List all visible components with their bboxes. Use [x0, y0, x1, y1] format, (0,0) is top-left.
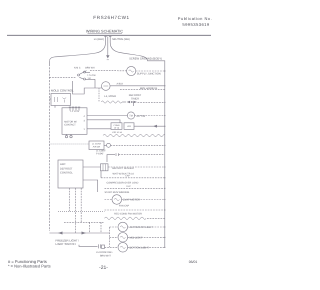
wire switch to mullion lamp	[90, 70, 127, 72]
label cap	[125, 175, 130, 178]
wire mold box to timer box	[54, 106, 56, 108]
wire dashed rung B	[64, 221, 105, 223]
mid light lamp	[118, 233, 128, 243]
svg-text:L1 (BLK): L1 (BLK)	[94, 38, 104, 41]
wire olp rung	[105, 187, 165, 189]
svg-text:L1 CONT: L1 CONT	[96, 149, 106, 152]
label compressor wht	[113, 173, 135, 176]
wire rail to mold box	[49, 98, 51, 100]
wire neutral branch to right rail	[110, 43, 165, 64]
label ground screw body	[129, 58, 162, 61]
label timer motor	[137, 115, 146, 118]
wire heater connector rung	[122, 101, 165, 106]
wire t-stat rung	[107, 153, 165, 162]
header model number	[93, 15, 129, 20]
wire bottom lamp rung	[105, 246, 165, 248]
wire hot branch to left rail	[49, 43, 105, 65]
lamp connector	[99, 244, 105, 248]
door switch lamp	[102, 82, 111, 91]
label t-stat	[96, 149, 106, 155]
svg-text:NEUTRAL(WH): NEUTRAL(WH)	[112, 38, 130, 41]
svg-text:A BLK: A BLK	[117, 83, 124, 86]
lamp vertical feed	[109, 227, 111, 247]
wire lower harness	[120, 89, 165, 91]
wire adc lower right	[83, 180, 98, 192]
connector block B	[124, 123, 134, 130]
wavy section divider	[103, 134, 165, 136]
sensor connector	[101, 164, 109, 171]
svg-text:L1, MOLD: L1, MOLD	[104, 95, 116, 98]
svg-text:MOLD CONTROL: MOLD CONTROL	[51, 89, 74, 93]
label freezer lamp	[130, 226, 154, 229]
wire bottom bus with arrows	[49, 232, 109, 235]
wire timer pin4 to motor	[87, 115, 128, 117]
svg-text:06/01: 06/01	[189, 260, 198, 264]
mold control label	[51, 89, 74, 93]
svg-text:ADC: ADC	[60, 163, 66, 166]
svg-text:WIRING SCHEMATIC: WIRING SCHEMATIC	[86, 29, 124, 33]
wire cap rung	[101, 177, 165, 179]
svg-text:HTR 10-14: HTR 10-14	[112, 131, 123, 134]
footer date code	[189, 260, 198, 264]
svg-text:CONN: CONN	[114, 124, 120, 127]
wire mid lamp rung	[110, 236, 165, 238]
wavy divider lower	[105, 217, 165, 219]
mullion heater lamp	[127, 66, 136, 75]
wire door switch to rail	[110, 85, 165, 87]
wire sensor to rail	[108, 166, 165, 168]
legend functioning parts	[8, 259, 51, 268]
svg-text:BRN WHT: BRN WHT	[100, 254, 111, 257]
wire air door to rail	[111, 144, 165, 146]
wire timer pin3	[87, 120, 120, 123]
evap fan motor	[112, 195, 122, 205]
label fan cap	[119, 205, 130, 208]
wire rail to air door box	[49, 143, 89, 145]
label bottom lamp	[130, 246, 150, 249]
svg-text:OLP: OLP	[126, 185, 131, 188]
label N M C	[74, 67, 81, 70]
svg-text:FRS26H7CW1: FRS26H7CW1	[93, 15, 129, 20]
label ORN WH	[85, 67, 95, 70]
wire rail to energy switch	[49, 76, 76, 78]
connector pins timer top	[69, 107, 80, 111]
svg-text:HTR: HTR	[127, 125, 132, 128]
header publication number	[178, 16, 212, 27]
junction ticks right rail	[164, 70, 165, 248]
svg-text:DEFROST: DEFROST	[60, 168, 73, 171]
svg-text:MID LIGHT: MID LIGHT	[130, 236, 144, 239]
wire evap rung	[105, 199, 165, 201]
label connector bottom	[112, 131, 123, 134]
title WIRING SCHEMATIC	[86, 29, 124, 33]
header rule	[7, 34, 211, 36]
label L4 BLK	[117, 83, 124, 86]
svg-text:LIGHT SWITCH: LIGHT SWITCH	[56, 242, 76, 246]
label olp	[126, 185, 131, 188]
switch energy saver	[78, 71, 96, 80]
svg-text:L1 CONT: L1 CONT	[92, 143, 102, 146]
wire sensor to cap rung	[100, 171, 102, 178]
label harness	[140, 87, 158, 90]
air door motor	[104, 143, 111, 147]
label t close	[87, 74, 96, 80]
label cond fan	[114, 213, 142, 216]
label L1 BLK	[94, 38, 104, 41]
connector block A	[111, 123, 122, 130]
svg-text:AIR DUCT SEN BLK: AIR DUCT SEN BLK	[112, 167, 134, 170]
svg-text:SUPPLY JUNCTION: SUPPLY JUNCTION	[137, 72, 161, 75]
svg-text:N M C: N M C	[74, 67, 81, 70]
label evap motor	[123, 198, 140, 201]
svg-text:START RUN WINDING: START RUN WINDING	[105, 191, 130, 194]
label mid lamp	[130, 236, 144, 239]
defrost heater element	[101, 101, 122, 103]
label freezer light	[56, 239, 80, 247]
ground symbol	[106, 55, 109, 60]
label sensor	[112, 167, 134, 170]
wire adc to sensor	[83, 166, 101, 168]
svg-text:SCREW GROUND (BODY): SCREW GROUND (BODY)	[129, 58, 162, 61]
wire switch to door lamp	[73, 79, 102, 101]
label defrost timer	[129, 94, 142, 100]
svg-text:Publication No.: Publication No.	[178, 16, 212, 21]
svg-text:T-STAT: T-STAT	[96, 153, 104, 156]
svg-text:AUTOMATIC LIGHT: AUTOMATIC LIGHT	[130, 226, 154, 229]
freezer light lamp	[118, 222, 128, 232]
adaptive defrost control box	[58, 160, 83, 188]
wire motor to rail	[135, 115, 165, 117]
label mullion heater	[137, 72, 161, 75]
svg-text:BRN HARNESS: BRN HARNESS	[140, 87, 158, 90]
label L1 mold	[104, 95, 116, 98]
svg-text:ORN WH: ORN WH	[85, 67, 95, 70]
label NEUTRAL WHT	[112, 38, 130, 41]
wire freezer lamp rung	[110, 226, 165, 228]
mold control box	[51, 94, 71, 106]
svg-text:T CLOSE: T CLOSE	[87, 74, 96, 77]
label start winding	[105, 191, 130, 194]
power cord plug prongs	[104, 36, 111, 42]
svg-text:5995353619: 5995353619	[182, 22, 210, 27]
page number	[99, 265, 108, 271]
svg-text:10-14: 10-14	[114, 126, 120, 129]
svg-text:CONTROL: CONTROL	[60, 172, 73, 175]
right rail NEUTRAL	[164, 63, 166, 247]
svg-text:BOTTOM LIGHT: BOTTOM LIGHT	[130, 246, 150, 249]
defrost timer box	[62, 108, 87, 135]
label door sw bottom	[96, 251, 114, 257]
svg-text:* = Non-Illustrated Parts: * = Non-Illustrated Parts	[8, 263, 51, 268]
wire timer pin1	[87, 128, 111, 130]
svg-text:AIR DR: AIR DR	[93, 146, 101, 149]
svg-text:TIMER: TIMER	[131, 97, 139, 100]
defrost timer motor	[127, 112, 134, 119]
svg-text:-21-: -21-	[99, 265, 108, 271]
ground wire	[107, 43, 109, 56]
svg-text:CONTACT: CONTACT	[64, 124, 76, 127]
left rail L1	[48, 64, 50, 231]
svg-text:L5 DOOR SW L: L5 DOOR SW L	[96, 251, 114, 254]
wire dotted rung A	[58, 210, 105, 212]
svg-text:RED COND FAN MOTOR: RED COND FAN MOTOR	[114, 213, 142, 216]
wire to lamp connector	[79, 245, 98, 247]
wire connector to rail with arrow	[134, 125, 165, 128]
wire fan rung	[105, 209, 165, 211]
svg-text:COMPRESSOR OVER LOAD: COMPRESSOR OVER LOAD	[107, 182, 139, 185]
adc bottom wires	[69, 188, 101, 233]
wire mullion to rail	[136, 70, 165, 72]
svg-text:WHT W/ BLK TR L6: WHT W/ BLK TR L6	[113, 173, 135, 176]
bottom light lamp	[118, 243, 128, 253]
svg-text:TM: TM	[129, 115, 132, 118]
svg-text:CAP: CAP	[125, 175, 130, 178]
svg-text:FAN CAP: FAN CAP	[119, 205, 130, 208]
pins below timer box	[65, 134, 72, 138]
air door box	[89, 141, 104, 150]
svg-text:L1 L4 N: L1 L4 N	[71, 110, 80, 113]
label compressor overload	[107, 182, 139, 185]
